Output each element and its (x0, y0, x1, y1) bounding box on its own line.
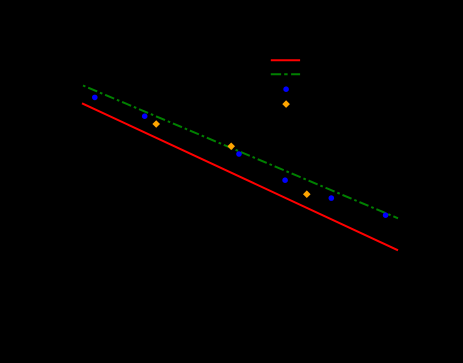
orange diamond point 1 (152, 120, 160, 128)
legend green dash-dot swatch (271, 73, 300, 75)
blue data point 6 (383, 212, 389, 218)
blue data point 3 (236, 151, 242, 157)
blue data point 4 (282, 177, 288, 183)
green dash-dot fit line (83, 86, 398, 219)
legend orange diamond swatch (282, 100, 290, 108)
blue data point 5 (329, 195, 335, 201)
legend red line swatch (271, 59, 300, 61)
legend blue circle swatch (283, 86, 289, 92)
orange diamond point 2 (227, 143, 235, 151)
blue data point 1 (92, 95, 98, 101)
red fit line (82, 103, 398, 250)
orange diamond point 3 (303, 190, 311, 198)
blue data point 2 (142, 113, 148, 119)
